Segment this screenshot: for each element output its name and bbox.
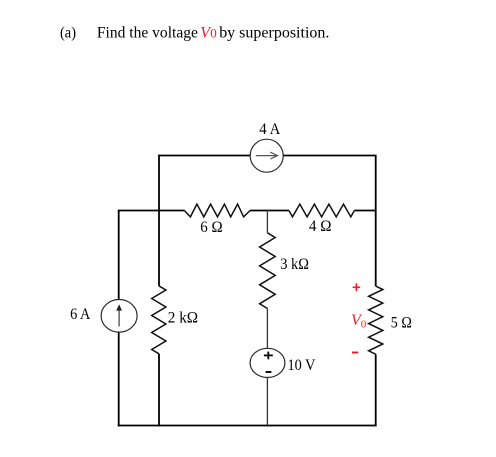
wire outer-left vertical <box>118 211 120 427</box>
svg-text:(a): (a) <box>60 25 76 42</box>
svg-text:6 Ω: 6 Ω <box>200 219 223 236</box>
wire middle rail right segment <box>354 210 376 212</box>
svg-text:Find the voltage: Find the voltage <box>97 25 198 42</box>
current source 4 A (circle) <box>250 139 283 172</box>
title red node label V0 <box>200 25 216 42</box>
resistor R 4 ohm <box>289 204 355 217</box>
resistor R 6 ohm <box>184 204 250 217</box>
wire inner-left vertical lower segment <box>158 354 160 427</box>
voltage source 10 V plus sign <box>264 352 273 360</box>
wire 10 V column lower segment <box>266 309 268 427</box>
svg-text:6 A: 6 A <box>70 306 91 323</box>
current source 4 A arrow <box>256 152 278 159</box>
wire middle rail left segment <box>118 210 185 212</box>
wire right vertical lower segment <box>375 354 377 426</box>
wire top rail <box>159 155 376 157</box>
red minus sign (V0 polarity -) <box>352 352 358 354</box>
svg-text:5 Ω: 5 Ω <box>391 315 412 332</box>
voltage source 10 V minus sign <box>266 371 272 373</box>
svg-text:0: 0 <box>210 26 217 41</box>
voltage source 10 V (circle) <box>250 348 285 377</box>
current source 6 A (circle) <box>101 300 137 333</box>
resistor R 2 kohm <box>152 286 166 354</box>
svg-text:4 Ω: 4 Ω <box>309 218 332 235</box>
red plus sign (V0 polarity +) <box>353 283 361 291</box>
svg-text:by superposition.: by superposition. <box>219 25 329 42</box>
svg-text:10 V: 10 V <box>288 357 316 374</box>
wire middle rail center segment <box>250 210 289 212</box>
svg-text:2 kΩ: 2 kΩ <box>168 310 198 327</box>
wire bottom rail <box>118 425 377 427</box>
wire right vertical upper segment <box>375 155 377 287</box>
svg-text:3 kΩ: 3 kΩ <box>280 256 309 273</box>
svg-text:4 A: 4 A <box>259 121 280 138</box>
resistor R 5 ohm (V0) <box>369 286 383 354</box>
resistor R 3 kohm <box>260 233 276 309</box>
wire 3 kohm column upper segment <box>266 210 268 233</box>
wire inner-left vertical upper segment <box>158 155 160 286</box>
current source 6 A arrow <box>116 304 122 326</box>
